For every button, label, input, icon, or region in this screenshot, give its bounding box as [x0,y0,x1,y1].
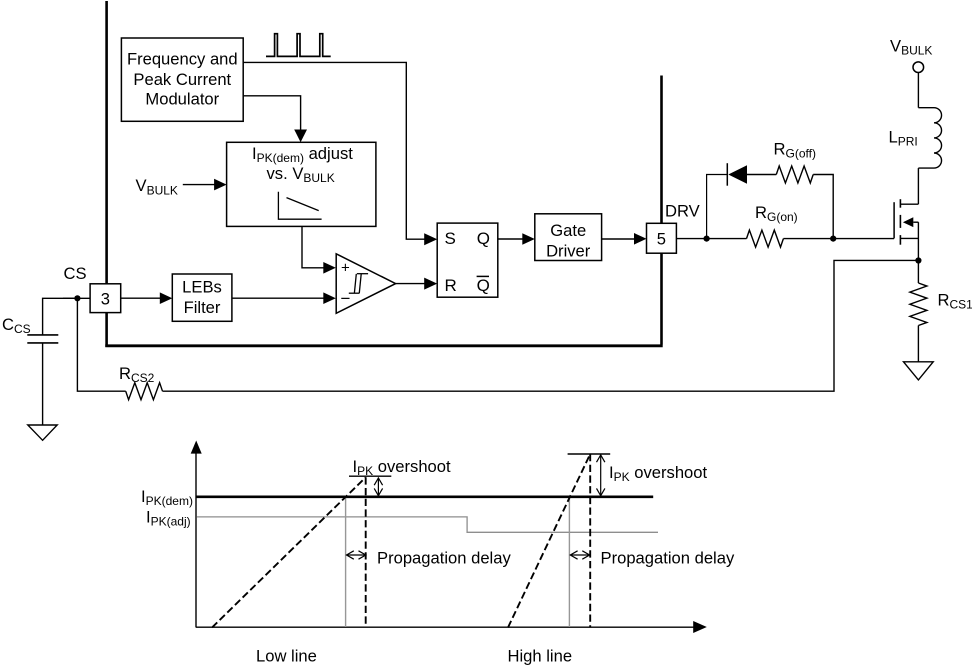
transistor Q1 body arrow [903,217,913,227]
block Gate Driver [535,214,602,261]
high line peak dashed vertical [589,454,591,627]
low line ramp [212,477,366,627]
arrowhead into pin 5 [634,233,647,245]
IC boundary left thick line [105,1,108,347]
wire RG(on) to gate node [783,238,833,240]
wire CS node to pin 3 [63,297,90,299]
wire pin 3 to LEBs filter [121,297,161,299]
transistor Q1 body wire [913,221,918,223]
IC boundary right thick line [660,76,663,345]
transistor Q1 channel segments [899,199,901,245]
wire RCS1 to ground [917,326,919,362]
resistor RCS2 [126,383,163,400]
svg-text:CS: CS [64,264,87,283]
svg-text:5: 5 [657,230,666,249]
arrowhead into comparator plus [323,262,336,274]
resistor RG(off) [776,166,813,183]
arrowhead into gate driver [522,233,535,245]
svg-text:Filter: Filter [184,298,221,317]
high line ramp [508,454,590,628]
svg-text:Propagation delay: Propagation delay [601,549,735,568]
svg-text:−: − [341,289,351,308]
arrowhead into R [424,278,437,290]
svg-text:LEBs: LEBs [182,278,222,297]
high line peak tick [568,453,611,455]
svg-text:Peak Current: Peak Current [133,70,231,89]
graph vertical axis arrowhead [191,441,202,454]
svg-text:DRV: DRV [665,201,700,220]
wire DRV node to RG(on) [707,238,747,240]
comparator hysteresis symbol [349,274,368,294]
wire RG(off) to right corner down [813,175,833,239]
wire freq box to IPK adjust box [243,96,301,131]
svg-text:3: 3 [101,290,110,309]
VBULK terminal circle [913,62,924,73]
svg-text:Low line: Low line [256,647,317,666]
inductor LPRI [918,108,941,168]
wire LEBs filter to comparator minus input [232,297,324,299]
pin 3 box [90,284,121,313]
node DRV junction dot [704,236,710,242]
Q-bar overbar [477,275,489,277]
pin 5 box [647,223,677,253]
block Frequency and Peak Current Modulator [121,38,243,121]
wire latch Q to gate driver [498,238,523,240]
block IPK(dem) adjust vs VBULK [227,142,376,226]
capacitor CCS [27,335,58,343]
node gate junction dot [830,236,836,242]
low line peak dashed vertical [365,477,367,627]
IPK box inner curve: axes [278,192,321,219]
wire VBULK to inductor [917,73,919,108]
arrowhead into IPK box left [214,179,227,191]
wire comparator output to R input [396,283,425,285]
IPK box inner curve: slope [287,198,319,211]
graph horizontal axis arrowhead [693,621,707,633]
low line peak tick [349,475,391,477]
wire gate node to MOSFET gate [833,238,894,240]
wire inductor to MOSFET drain [917,168,919,204]
IPK(adj) level line [197,517,658,532]
wire diode to RG(off) [747,174,776,176]
node CS junction dot [74,295,80,301]
wire RCS2 to CS node [77,298,125,391]
svg-text:+: + [341,260,350,277]
low line propagation delay arrow [347,551,366,559]
svg-text:Gate: Gate [550,221,586,240]
low line overshoot arrow [374,478,382,496]
wire pin 5 to DRV node [676,238,706,240]
high line overshoot arrow [597,455,605,496]
resistor RCS1 [910,283,927,326]
transistor Q1 MOSFET gate bar [893,202,895,238]
wire IPK box to comparator plus input [302,226,324,267]
resistor RG(on) [747,230,784,247]
wire DRV node up to diode branch [707,175,728,239]
wire gate driver to pin 5 [602,238,635,240]
transistor Q1 source connection [900,237,918,239]
node sense junction dot [915,257,921,263]
arrowhead into LEBs filter [160,292,173,304]
svg-text:High line: High line [508,647,573,666]
IC boundary bottom thick line [105,344,662,347]
high line propagation delay arrow [570,551,589,559]
ground (right) [904,362,934,380]
wire CS node to capacitor [43,298,78,334]
arrowhead into comparator minus [323,292,336,304]
arrowhead into IPK box top [294,130,307,143]
graph horizontal axis [196,626,694,628]
wire capacitor to ground [42,343,44,425]
svg-text:Q: Q [477,229,490,248]
S-R latch U1 [437,223,498,297]
wire sense node to RCS2 [163,260,919,391]
svg-text:Frequency and: Frequency and [127,50,238,69]
svg-text:R: R [445,276,457,295]
transistor Q1 drain connection [900,203,918,205]
op-amp comparator [336,254,395,313]
IPK(dem) level line [196,495,653,498]
high line crossing marker [568,498,570,627]
svg-text:Modulator: Modulator [145,90,219,109]
wire freq box to S input [243,62,425,239]
graph vertical axis [195,453,197,628]
wire MOSFET source down to sense node [917,222,919,262]
block LEBs Filter [172,274,232,321]
wire VBULK to IPK box [183,184,215,186]
diode D1 [728,165,747,183]
svg-text:Propagation delay: Propagation delay [377,549,511,568]
svg-text:S: S [445,229,456,248]
low line crossing marker [345,498,347,627]
diode D1 cathode bar [726,163,728,186]
ground (left) [28,425,57,440]
pulse waveform [266,34,331,57]
wire sense node to RCS1 [917,261,919,284]
arrowhead into S [424,233,437,245]
svg-text:Q: Q [477,276,490,295]
svg-text:Driver: Driver [546,241,591,260]
